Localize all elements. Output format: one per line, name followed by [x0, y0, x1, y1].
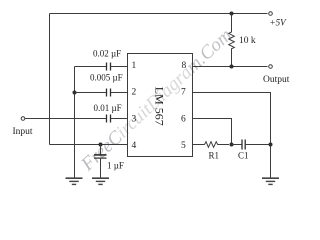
wire: pin 1 wire	[75, 66, 128, 68]
wire: pin 4 supply wire	[50, 144, 128, 146]
wire: input / pin 3 wire	[25, 118, 127, 120]
ground (pin7)	[262, 177, 279, 179]
capacitor 0.02uF	[107, 63, 111, 71]
svg-text:0.005 µF: 0.005 µF	[90, 73, 123, 83]
svg-text:5: 5	[181, 141, 186, 151]
ground (caps)	[66, 177, 83, 179]
svg-text:7: 7	[181, 88, 186, 98]
wire: C1 to ground vertical	[246, 144, 271, 146]
svg-text:1 µF: 1 µF	[107, 161, 124, 171]
wire: caps ground vertical	[74, 67, 76, 178]
wire: pin 7 ground wire	[193, 93, 271, 179]
svg-text:Output: Output	[263, 75, 290, 85]
wire: pin 5 wire	[193, 144, 205, 146]
svg-text:10 k: 10 k	[239, 36, 256, 46]
svg-text:LM 567: LM 567	[153, 87, 167, 126]
svg-text:1: 1	[132, 61, 137, 71]
wire: pin 2 wire	[75, 92, 128, 94]
capacitor 0.01uF	[107, 115, 111, 123]
svg-text:0.02 µF: 0.02 µF	[93, 49, 121, 59]
svg-text:0.01 µF: 0.01 µF	[94, 103, 122, 113]
wire: pin 6 wire	[193, 119, 232, 145]
terminal Output	[269, 65, 273, 69]
node: 1uF junction	[99, 143, 103, 147]
resistor R1	[205, 142, 230, 148]
svg-text:4: 4	[132, 141, 137, 151]
capacitor 1uF	[100, 145, 102, 155]
svg-text:C1: C1	[238, 151, 249, 161]
node: pin2 cap junction	[73, 91, 77, 95]
terminal Input	[21, 117, 25, 121]
resistor 10k	[229, 14, 235, 67]
svg-text:+5V: +5V	[270, 17, 288, 27]
wire: left supply vertical	[49, 14, 51, 145]
ground (1uF)	[92, 177, 109, 179]
node: output junction	[230, 65, 234, 69]
svg-text:Input: Input	[13, 127, 33, 137]
svg-text:8: 8	[182, 61, 187, 71]
capacitor C1	[232, 144, 242, 146]
wire: +5V top rail	[50, 13, 268, 15]
node: C1 ground junction	[269, 143, 273, 147]
op-amp U1 LM567 box	[128, 54, 193, 157]
svg-text:6: 6	[181, 115, 186, 125]
svg-text:3: 3	[132, 115, 137, 125]
svg-text:2: 2	[132, 87, 137, 97]
wire: pin 8 output wire	[193, 66, 268, 68]
capacitor 0.005uF	[107, 89, 111, 97]
svg-text:R1: R1	[209, 151, 220, 161]
node: 10k top junction	[230, 12, 234, 16]
terminal +5V	[269, 12, 273, 16]
node: R1-C1 junction	[230, 143, 234, 147]
